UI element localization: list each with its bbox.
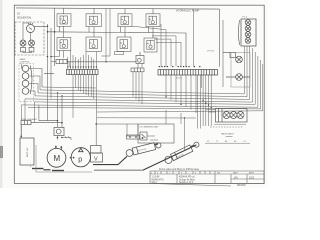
wires X1 up (68, 51, 97, 70)
motor M1 (47, 147, 66, 167)
svg-text:DATE: DATE (233, 172, 238, 175)
junction dots X2 (159, 66, 201, 67)
coupling marks (70, 157, 75, 159)
valve box upper (91, 146, 102, 154)
svg-text:0014: 0014 (152, 182, 158, 184)
wire K1 pins (60, 8, 64, 37)
junction dot F2 line (105, 61, 106, 62)
wire drop to cylinder CYL1 (127, 124, 138, 136)
junction dots left bus (47, 26, 56, 58)
svg-text:M: M (54, 154, 61, 163)
svg-text:2023: 2023 (249, 178, 255, 180)
wire bus to left drop C (33, 102, 35, 123)
wire panel internal (23, 23, 48, 53)
bus wire left vertical B (50, 28, 52, 99)
valve block dashed wire (210, 126, 244, 128)
svg-text:Pump valve and fitting to 34HG: Pump valve and fitting to 34HG2 assy (159, 168, 200, 171)
wire bus to valve V (95, 124, 97, 146)
svg-text:VALVE ASSY: VALVE ASSY (221, 133, 235, 136)
svg-text:3: 3 (181, 173, 182, 175)
valve solenoid block VB1 (216, 109, 248, 123)
lamp H1 (236, 56, 243, 63)
wires X2 down (166, 75, 202, 113)
relay K2 (86, 14, 101, 27)
svg-text:PL 6: PL 6 (243, 17, 248, 19)
svg-text:APPR: APPR (249, 172, 255, 175)
relay K1 (57, 14, 71, 26)
battery B1 (20, 125, 34, 166)
relay K7 (117, 37, 131, 52)
bus wire vertical right B (222, 20, 224, 87)
lamp enclosure (231, 53, 250, 88)
junction dots X1 (67, 66, 97, 67)
junction dot battery top (20, 136, 22, 138)
bus wire mid (48, 32, 187, 67)
svg-text:Deluge kit fitted: Deluge kit fitted (179, 179, 196, 182)
connector J1 enclosure (19, 64, 34, 102)
relay K8 (144, 38, 157, 52)
oil sender box (138, 124, 174, 143)
wire F2 out (44, 62, 136, 74)
svg-text:1-10-94: 1-10-94 (152, 177, 161, 179)
label HAND CONTROL (20, 58, 31, 64)
wire K4 pins (149, 9, 154, 38)
svg-text:1: 1 (169, 173, 170, 175)
bus wire vertical right (219, 9, 221, 67)
wires X4 down (133, 72, 142, 104)
svg-text:V: V (94, 157, 98, 163)
wire oil sender out (147, 136, 158, 140)
ground bar battery (32, 168, 44, 170)
cylinder solenoid box (127, 135, 140, 139)
bus wire left vertical A (47, 24, 49, 121)
svg-text:p: p (78, 157, 82, 164)
wire valve port line (205, 142, 250, 144)
label valve ports (207, 140, 246, 143)
fuse F1 (21, 121, 31, 125)
wire bus to left drop A (20, 105, 22, 121)
bus wire left vertical C (54, 8, 56, 66)
lamp L2 (29, 40, 35, 52)
relay K4 (146, 14, 160, 27)
junction dots motor terminals (55, 146, 62, 148)
valve box V1 (91, 153, 103, 162)
wire bus to solenoid B (31, 96, 62, 123)
relay K9 (136, 52, 144, 64)
chassis rail (94, 169, 143, 171)
junction dots fan crossings (165, 96, 212, 118)
svg-text:HAND: HAND (20, 58, 26, 61)
wire J1 to bus fan (22, 64, 43, 96)
junction dots motor (57, 137, 63, 139)
terminal box under K7 (115, 52, 124, 55)
hydraulic pipe to CYL1 (93, 156, 127, 164)
connector J2 (239, 19, 257, 46)
relay K3 (118, 14, 132, 27)
hydraulic cylinder CYL1 (126, 142, 161, 157)
oil switch SW1 (140, 132, 147, 140)
wire K2 pins (89, 8, 94, 37)
hydraulic cylinder CYL2 (165, 142, 199, 163)
svg-text:2: 2 (151, 173, 152, 175)
svg-text:OIL SENDER UNIT: OIL SENDER UNIT (140, 127, 160, 129)
ground bar motor left (44, 169, 51, 171)
unit enclosure wire (36, 145, 92, 172)
svg-text:JAN: JAN (234, 177, 239, 180)
wire under valve block (214, 123, 246, 125)
lamp L1 (20, 40, 26, 52)
wire K9 pins (138, 64, 142, 69)
junction dots bus (57, 92, 97, 125)
relay K6 (86, 37, 101, 52)
wire under valve label (226, 136, 233, 138)
svg-text:4Z64HA FR cyl: 4Z64HA FR cyl (179, 176, 195, 179)
svg-text:BATT 12V: BATT 12V (26, 147, 29, 157)
wire drop K3 column (101, 9, 110, 62)
starter solenoid S1 (54, 128, 64, 136)
terminal strip X2 (158, 70, 218, 76)
gauge G1 (27, 23, 35, 33)
terminal strip X4 (131, 68, 144, 72)
wire bus to solenoid A (39, 93, 58, 127)
wires X2 up nested (132, 9, 194, 67)
wires X1 down to fan (73, 75, 96, 125)
junction dots cylinder box (129, 136, 137, 138)
wire drop to cylinder CYL2 (184, 118, 186, 150)
bus fan wires (21, 64, 262, 124)
svg-text:X2 14: X2 14 (176, 78, 182, 80)
resistor R1 (223, 53, 236, 58)
wire bus to left drop B (24, 99, 26, 121)
tipping deck line (143, 145, 196, 170)
connector J1 (22, 65, 32, 94)
wire S1 to motor (58, 123, 72, 140)
control panel P1 (15, 22, 44, 55)
svg-text:Serial no 10 4: Serial no 10 4 (179, 181, 194, 184)
svg-text:6: 6 (195, 173, 196, 175)
ground bar motor (52, 170, 64, 172)
wire K3 pins (121, 9, 126, 38)
lamp H2 (226, 74, 250, 81)
wire drops to oil sender (166, 110, 181, 124)
svg-text:LP 12V: LP 12V (207, 51, 215, 53)
svg-text:DRAWN: DRAWN (237, 184, 246, 187)
fuse block F2 (56, 60, 67, 64)
svg-text:SEQUENTIAL: SEQUENTIAL (17, 17, 32, 20)
pump P1 (71, 148, 90, 167)
svg-text:4: 4 (157, 173, 158, 175)
junction dot oil switch (142, 137, 144, 139)
wires X2 end drops (198, 75, 212, 129)
supply bus wire top (16, 8, 220, 9)
wire stubs valve block (206, 110, 216, 112)
relay K5 (57, 38, 71, 51)
wire J2 drops (244, 46, 260, 109)
terminal strip X1 (67, 70, 99, 75)
svg-text:FUSE 100A MAXI: FUSE 100A MAXI (21, 118, 37, 121)
wire K5 pins (51, 51, 64, 59)
panel label D1 SEQUENTIAL (17, 14, 32, 20)
svg-text:HB46OHTS: HB46OHTS (152, 180, 165, 182)
svg-text:CONTROL: CONTROL (20, 62, 31, 64)
